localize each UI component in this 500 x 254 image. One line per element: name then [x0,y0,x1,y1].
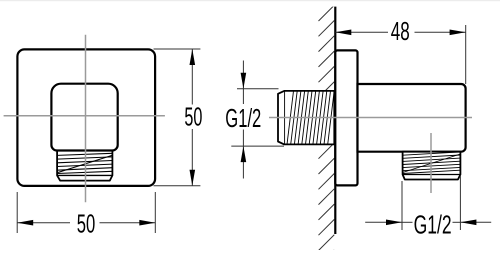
centerline vertical (outlet axis) [430,133,432,193]
dimension G1/2 (inlet) extension line bottom [231,145,284,147]
svg-text:50: 50 [184,104,202,132]
dimension 50 (bottom) line + arrows [17,220,155,226]
dimension 48 line + arrows [335,30,465,36]
svg-text:G1/2: G1/2 [225,105,261,133]
dimension 50 (right) extension line top [154,48,201,50]
svg-text:48: 48 [391,18,410,46]
faint top border [0,0,500,1]
svg-text:G1/2: G1/2 [414,212,452,240]
pipe thread G1/2 inlet (left of wall) [278,91,334,144]
dimension 50 (right) extension line bottom [154,185,201,187]
centerline vertical (left view) [85,35,87,203]
main body block [358,84,466,152]
dimension 48 extension line (right) [465,25,467,84]
flange plate on wall [335,50,357,185]
outlet thread hatch [403,152,461,174]
dimension 50 (bottom) extension line right [154,192,156,233]
outlet thread G1/2 (bottom) [403,152,461,180]
outer square body (front view) [17,49,155,186]
dimension 50 (right) line + arrows [190,49,196,186]
wall line [334,7,336,234]
dimension G1/2 (outlet) extension line right [459,176,461,231]
thread hatch lines [57,153,112,173]
dimension G1/2 (outlet) extension line left [401,181,403,230]
dimension G1/2 (outlet) line + arrows [365,220,491,226]
dimension G1/2 (inlet) extension line top [237,88,279,90]
svg-text:50: 50 [77,211,96,239]
inner square boss [51,84,117,151]
centerline horizontal (right view) [269,117,472,119]
thread collar (front view) [57,150,112,180]
dimension 50 (bottom) extension line left [16,192,18,233]
dimension G1/2 (inlet) line + arrows [241,61,247,179]
wall hatch [319,5,335,254]
pipe thread hatch [285,91,335,144]
centerline horizontal (left view) [4,115,165,117]
